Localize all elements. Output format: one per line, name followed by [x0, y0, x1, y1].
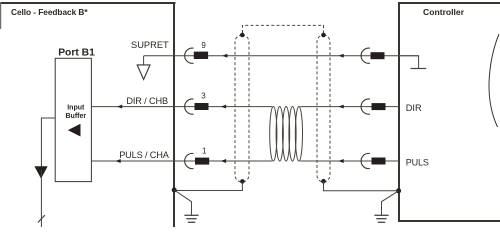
shield node dot bottom-right: [321, 179, 326, 184]
SUPRET return stub wire: [143, 56, 145, 65]
SUPRET open arrow (return symbol): [137, 65, 150, 80]
controller internal SUPRET wire to ground: [399, 56, 419, 69]
svg-text:Controller: Controller: [423, 7, 465, 17]
controller connector DIR contact: [372, 103, 386, 110]
SUPRET arrowhead right of shield: [338, 54, 343, 58]
shield node dot top-left: [240, 33, 245, 38]
left shield drain wire: [174, 181, 242, 190]
DIR/CHB wire right of twist: [300, 106, 399, 108]
input buffer box: [55, 58, 91, 181]
junction dot on controller edge: [396, 188, 401, 193]
twisted pair symbol: [270, 107, 303, 162]
controller connector DIR crimp arc: [361, 99, 370, 114]
svg-text:DIR: DIR: [406, 103, 422, 113]
DIR arrowhead left of shield: [221, 105, 226, 109]
controller connector SUPRET crimp arc: [361, 48, 370, 63]
svg-text:SUPRET: SUPRET: [131, 40, 169, 50]
chassis arrow (filled down triangle): [34, 166, 47, 178]
DIR/CHB wire left of twist: [91, 106, 272, 108]
connector pin 3 contact: [195, 103, 209, 110]
shield jumper dashed link: [243, 25, 324, 33]
PULS arrowhead right of shield: [338, 159, 343, 163]
svg-text:Port B1: Port B1: [58, 48, 95, 59]
connector pin 1 contact: [195, 158, 209, 165]
wire from buffer to chassis arrow: [41, 118, 55, 167]
svg-text:DIR / CHB: DIR / CHB: [126, 96, 168, 106]
wire break slash: [38, 215, 45, 222]
svg-text:Input: Input: [67, 105, 85, 112]
SUPRET wire: [144, 55, 419, 57]
buffer triangle (input buffer amplifier): [68, 124, 81, 137]
PULS/CHA wire left of twist: [91, 160, 272, 162]
svg-text:Buffer: Buffer: [65, 113, 86, 120]
PULS arrowhead at buffer: [115, 159, 120, 163]
PULS/CHA wire right of twist: [300, 160, 399, 162]
svg-text:PULS / CHA: PULS / CHA: [119, 150, 170, 160]
SUPRET arrowhead left of shield: [222, 54, 227, 58]
wire below chassis arrow: [40, 170, 42, 227]
controller signal ground bar: [411, 68, 427, 70]
shield node dot bottom-left: [240, 179, 245, 184]
connector pin 9 crimp arc: [185, 48, 194, 63]
shield node dot top-right: [321, 33, 326, 38]
right ground stem: [382, 191, 399, 216]
motor curve inside controller: [489, 34, 499, 127]
controller connector SUPRET contact: [371, 52, 385, 59]
svg-text:3: 3: [201, 92, 206, 101]
controller connector PULS crimp arc: [361, 153, 370, 168]
svg-text:9: 9: [201, 41, 206, 50]
connector pin 9 contact (filled rect): [194, 52, 208, 59]
connector pin 3 crimp arc: [185, 99, 194, 114]
cable shield right gland (dashed tube): [317, 35, 330, 182]
left ground stem: [174, 190, 191, 215]
cable shield left gland (dashed tube): [235, 35, 249, 182]
Cello feedback enclosure box (partial): [0, 2, 176, 227]
connector pin 1 crimp arc: [185, 153, 194, 168]
right shield drain wire: [324, 181, 399, 191]
junction dot on cello edge: [172, 188, 177, 193]
DIR arrowhead at buffer: [117, 105, 122, 109]
left earth ground: [184, 215, 198, 222]
PULS arrowhead left of shield: [221, 159, 226, 163]
svg-text:1: 1: [202, 147, 207, 156]
controller connector PULS contact: [372, 158, 386, 165]
svg-text:PULS: PULS: [406, 158, 429, 168]
svg-text:Cello - Feedback B*: Cello - Feedback B*: [11, 7, 88, 17]
DIR arrowhead right of shield: [338, 105, 343, 109]
right earth ground: [374, 215, 388, 222]
Controller enclosure box (partial): [398, 2, 500, 221]
